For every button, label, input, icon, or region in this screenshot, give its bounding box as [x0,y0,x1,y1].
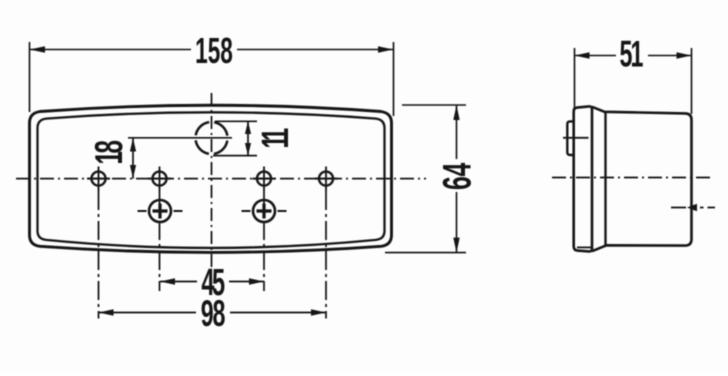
dim 98 line [99,312,327,314]
svg-text:64: 64 [436,162,480,190]
hole extension line x=159.5 down to 45 dim [159,191,161,291]
dim 64 arrowheads [453,105,459,253]
dim 98 arrowheads [99,309,327,315]
hole extension line x=264 down to 45 dim [263,191,265,291]
dim 51 line [575,55,692,57]
small hole 2 [148,167,171,192]
screw hole large 1 [138,200,183,222]
side view: lens inner bottom lip line [577,246,591,248]
circle horizontal crosshair / dim 18 top extension [128,137,232,139]
small hole 3 [253,167,276,192]
side view: cable arrowhead [687,204,697,211]
dim 158 arrowheads [30,46,394,52]
dim 11 extension lines [213,121,257,155]
side view: lens front part [574,106,592,251]
horizontal centerline (front view) [16,178,426,180]
side view: housing front edge line [604,112,606,245]
side view: tab screw centerline [563,137,589,139]
dim 18 line with arrows [132,138,134,179]
side view: housing outline [592,107,692,251]
lamp body outer outline (front view) [30,105,392,252]
lamp lens inner outline (front view) [38,112,385,248]
small hole 4 [315,167,338,192]
svg-text:51: 51 [619,33,643,75]
side view: horizontal centerline [552,177,714,179]
dashed circle (lamp screw boss) [196,122,228,154]
hole extension line x=98.5 down to 98 dim [98,191,100,319]
hole extension line x=326 down to 98 dim [325,191,327,319]
dim 45 arrowheads [160,278,264,284]
dim 64 line [456,105,458,253]
svg-text:158: 158 [195,32,233,72]
small hole 1 [87,167,110,192]
dim 158 extension lines [30,42,394,116]
dim 45 line [160,281,264,283]
side view: mounting tab [567,121,573,155]
svg-text:18: 18 [87,140,130,164]
svg-text:98: 98 [201,292,225,334]
screw hole large 2 [242,200,287,222]
dim 158 line [30,49,394,51]
dim 64 extension lines [385,105,466,253]
dim 51 extension lines [575,48,692,114]
dim 51 arrowheads [575,52,692,58]
side view: cable direction dashes [671,207,715,209]
dim 11 line with arrows [247,121,249,155]
vertical centerline (front view) [211,93,213,268]
